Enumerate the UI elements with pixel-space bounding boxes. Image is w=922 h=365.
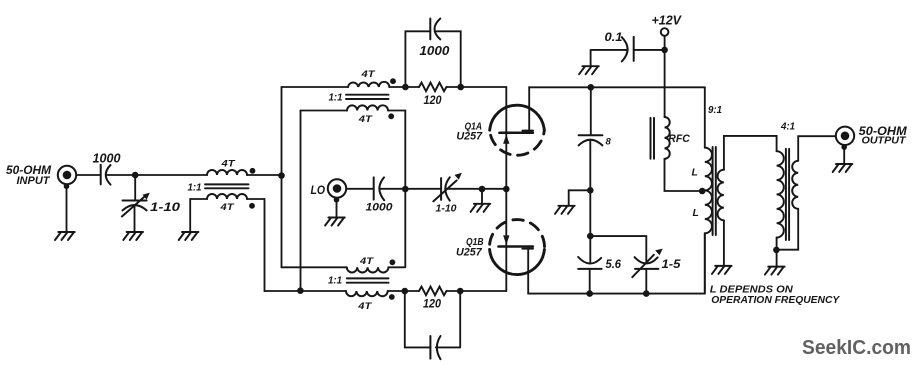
node T3 output junction [402,288,409,295]
ground LO connector [325,218,345,226]
capacitor C5 8 [579,87,603,236]
node T2 output junction [402,84,409,91]
svg-text:1000: 1000 [93,152,121,166]
svg-text:4T: 4T [360,69,376,80]
wire T4 primary bottom [704,233,706,293]
wire T1 secondary left to ground [190,199,207,232]
ground VC1 [123,232,143,240]
svg-text:8: 8 [606,136,612,147]
node phase dot T1 primary [250,168,256,174]
node A junction [278,172,285,179]
ground T1 secondary [179,232,199,240]
wire gate line vertical [505,87,507,291]
label 50-OHM INPUT [6,165,51,187]
resistor R2 120 bottom [419,287,447,296]
svg-text:4T: 4T [357,301,373,312]
wire R2 right to Q1B [447,290,507,292]
wire VC2 to gate line [446,188,506,190]
wire input connector stem [66,186,68,232]
node phase dot T3 primary [390,259,396,265]
capacitor C7 0.1 [622,37,634,62]
node T3 secondary left junction [297,287,304,294]
svg-text:RFC: RFC [668,133,691,145]
svg-text:4:1: 4:1 [780,122,795,133]
node +12V junction [661,47,668,54]
svg-text:4T: 4T [220,159,236,170]
node tank junction [587,233,594,240]
capacitor C3 1000 LO [374,177,385,200]
transistor Q1B U257 [490,220,545,294]
svg-text:LO: LO [311,183,326,197]
svg-text:9:1: 9:1 [708,105,722,116]
wire C4 loop bottom [405,291,460,347]
capacitor C2 1000 top [430,19,440,40]
ground T5 [765,267,785,275]
wire 0.1 branch [634,49,665,51]
node 8pF junction top [588,84,595,91]
wire T5 secondary bottom [777,209,799,250]
svg-text:1000: 1000 [366,202,394,214]
svg-text:OPERATION FREQUENCY: OPERATION FREQUENCY [711,295,840,306]
svg-text:U257: U257 [456,131,483,143]
note L depends on operation frequency [710,285,841,307]
svg-text:L: L [693,207,699,219]
wire T2 secondary left horizontal [301,110,348,112]
svg-text:1000: 1000 [419,44,449,58]
node T5 common [773,247,780,254]
core T4 [713,147,716,235]
core T3 [347,278,389,282]
wire rail to T4 primary [704,87,706,147]
svg-text:4T: 4T [359,256,375,267]
wire T5 secondary top to output [798,136,836,161]
svg-text:120: 120 [423,299,442,311]
node center tap [699,188,706,195]
node R2 right junction [457,288,464,295]
wire drain rail Q1A [529,86,705,88]
core T2 [346,95,389,99]
ground 0.1 [579,66,599,74]
transformer T4 secondary [718,170,724,221]
transformer T5 primary [777,151,784,237]
ground LO line [471,204,491,212]
svg-text:U257: U257 [456,246,483,258]
terminal +12V [661,28,669,36]
capacitor C1 1000 [101,165,111,185]
ground source bypass [555,206,575,214]
wire T3 upper left horizontal [282,266,347,268]
svg-text:L DEPENDS ON: L DEPENDS ON [710,285,794,296]
svg-text:1-5: 1-5 [662,259,682,271]
wire T2 secondary right to LO junction [388,111,405,190]
wire connector to C1 [76,174,101,176]
label 50-OHM OUTPUT [859,126,907,147]
wire T5 primary bottom to node [776,238,778,267]
transformer T3 primary 4T upper [347,267,389,272]
capacitor VC1 variable 1-10 [122,175,150,232]
ground output connector [833,164,853,172]
svg-text:4T: 4T [358,114,374,125]
wire source to ground [569,190,591,206]
wire T1 secondary right down [247,199,265,291]
wire C2 loop [405,31,460,87]
wire output stem [843,147,845,164]
capacitor VC2 variable 1-10 LO [433,173,462,202]
transformer T2 primary 4T [348,82,389,87]
wire +12V down to RFC [664,36,666,117]
wire RFC to tap [665,159,700,191]
node gate junction [503,186,510,193]
node input junction [132,172,139,179]
capacitor C6 5.6 [578,236,601,294]
wire T4 secondary bottom stem [723,220,725,266]
node phase dot T1 secondary [249,203,255,209]
inductor RFC [651,117,670,159]
svg-text:INPUT: INPUT [17,175,51,187]
svg-text:1:1: 1:1 [328,275,342,286]
wire T2 secondary left vertical [300,111,302,291]
wire bottom rail Q1B [528,233,705,293]
wire T3 secondary left [265,290,347,292]
wire LO to C3 [346,188,373,190]
resistor R1 120 [419,83,447,92]
transformer T1 primary 4T [207,170,247,175]
wire R1 right [447,86,507,88]
core T5 [786,149,789,240]
svg-text:5.6: 5.6 [606,259,622,271]
wire node A vertical to T2 and T3 [281,87,283,267]
wire T3 primary right to LO junction [388,189,405,267]
svg-text:1-10: 1-10 [150,200,180,214]
wire 0.1 to ground [591,50,628,66]
svg-text:1:1: 1:1 [329,93,343,104]
transistor Q1A U257 [490,87,545,155]
node phase dot T2 primary [390,78,396,84]
wire ground stem LO line [481,189,483,204]
svg-text:4T: 4T [219,202,235,213]
wire T3 secondary right [388,290,419,292]
node bottom rail 5.6 [586,290,593,297]
transformer T4 primary L L [705,148,712,234]
node phase dot T3 secondary [389,294,395,300]
wire C1 to T1 [106,174,207,176]
transformer T3 secondary 4T lower [346,291,388,296]
wire T4 secondary top link [724,136,777,170]
wire C3 to VC2 [380,188,441,190]
connector J2 LO [328,179,346,202]
capacitor C4 1000 bottom [430,336,440,359]
transformer T2 secondary 4T [347,105,388,110]
wire LO stem [336,200,338,218]
transformer T1 secondary 4T [207,194,247,199]
node LO junction [402,186,409,193]
transformer T5 secondary [792,161,798,209]
node phase dot T2 secondary [388,113,394,119]
wire T1 primary to node A [247,174,282,176]
node ground junction LO [479,186,486,193]
capacitor VC3 variable 1-5 [590,236,662,294]
svg-text:+12V: +12V [652,12,683,27]
core T1 [205,184,249,188]
connector J1 50-ohm input [58,166,76,189]
wire T2 primary left [282,86,349,88]
node R1 right junction [457,84,464,91]
node bottom rail 1-5 [643,290,650,297]
svg-text:1-10: 1-10 [436,204,457,215]
svg-text:0.1: 0.1 [605,32,623,44]
ground T4 secondary [712,266,732,274]
connector J3 50-ohm output [836,127,854,150]
node source junction [587,187,594,194]
svg-text:L: L [692,167,698,179]
svg-text:1:1: 1:1 [188,183,202,194]
svg-text:SeekIC.com: SeekIC.com [802,337,911,359]
svg-text:120: 120 [424,95,443,107]
svg-text:OUTPUT: OUTPUT [862,136,907,147]
wire T2 primary right [389,86,419,88]
ground input connector [55,232,75,240]
